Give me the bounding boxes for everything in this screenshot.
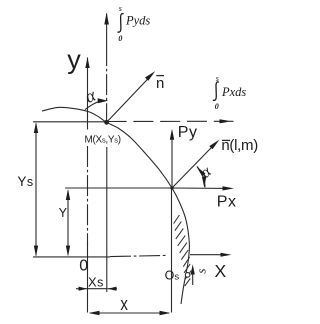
vertical extension line from Q down to x-dimension xyxy=(171,188,173,313)
normal vector n(l,m) at Q xyxy=(172,143,216,188)
integral Pyds label xyxy=(118,4,151,43)
svg-text:Xs: Xs xyxy=(88,274,103,289)
svg-text:x: x xyxy=(120,294,128,314)
svg-text:s: s xyxy=(194,269,209,274)
X axis arrow xyxy=(190,254,226,256)
svg-text:s: s xyxy=(216,74,219,83)
svg-text:s: s xyxy=(119,4,122,13)
svg-text:n(l,m): n(l,m) xyxy=(221,137,258,154)
angle alpha arc at Q xyxy=(197,166,205,187)
vertical centerline through M (dash-dot) with Pyds resultant arrow xyxy=(106,14,108,46)
svg-text:Py: Py xyxy=(178,124,197,141)
svg-text:α: α xyxy=(197,163,215,182)
x dimension line with arrows xyxy=(90,312,169,314)
svg-text:α: α xyxy=(82,85,99,107)
point Q on curve (origin of Px,Py) xyxy=(170,186,173,189)
Ys dimension line with arrows xyxy=(35,124,37,256)
small circle Os on curve xyxy=(185,273,190,278)
horizontal extension line at Q level / Px axis xyxy=(65,187,172,189)
svg-text:0: 0 xyxy=(118,34,122,43)
dashed horizontal arrow from M (line of action of Pxds) xyxy=(107,120,220,122)
svg-text:Pyds: Pyds xyxy=(125,14,150,28)
main curve (contour s) xyxy=(42,107,189,304)
Ys top extension line xyxy=(33,121,107,123)
svg-text:n: n xyxy=(156,75,164,92)
global Y axis solid upper part with arrow xyxy=(87,58,89,130)
angle alpha arc at M xyxy=(85,101,101,110)
global Y axis solid lower part xyxy=(87,244,89,313)
svg-text:Y: Y xyxy=(59,206,68,220)
svg-text:M(Xs,Ys): M(Xs,Ys) xyxy=(85,134,121,145)
svg-text:Ys: Ys xyxy=(17,174,33,189)
horizontal centerline dash-dot to the right xyxy=(110,255,168,256)
svg-text:X: X xyxy=(215,261,227,281)
svg-text:0: 0 xyxy=(215,102,219,111)
centerline below M / Xs extension line (solid) xyxy=(106,147,108,292)
svg-text:Px: Px xyxy=(217,194,236,211)
hatching along inner side of curve xyxy=(174,215,192,286)
svg-text:0: 0 xyxy=(79,258,88,275)
Xs dimension (outside arrows) xyxy=(88,288,108,290)
svg-text:Pxds: Pxds xyxy=(221,85,246,99)
Y top extension line xyxy=(64,187,66,189)
global Y axis dash-dot middle part xyxy=(87,146,89,246)
Py arrow xyxy=(171,136,173,188)
bottom horizontal baseline (solid part through origin) xyxy=(33,256,110,258)
small s-direction arrow xyxy=(192,268,194,285)
integral Pxds label xyxy=(213,74,247,111)
Y dimension line with arrows xyxy=(67,191,69,255)
normal vector n at M xyxy=(107,74,153,122)
svg-text:y: y xyxy=(67,45,81,75)
point M xyxy=(104,120,109,125)
svg-text:Os: Os xyxy=(165,268,180,282)
Px arrow xyxy=(172,187,229,189)
